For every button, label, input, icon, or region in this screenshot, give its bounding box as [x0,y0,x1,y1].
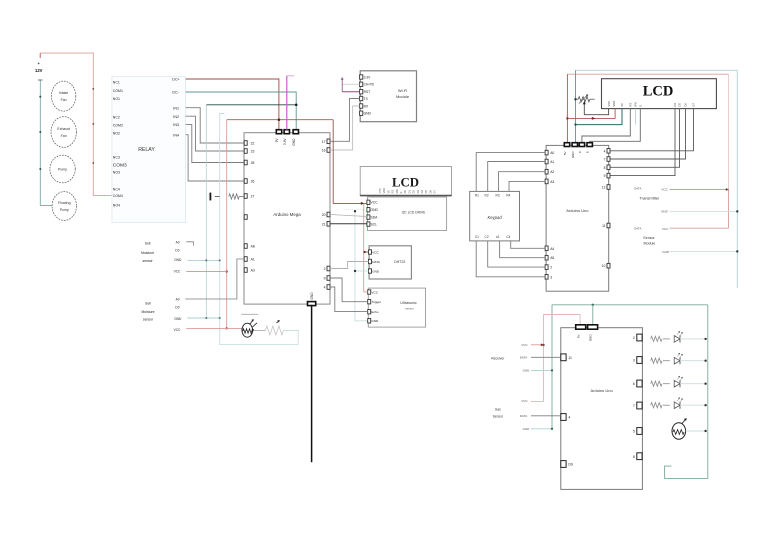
svg-text:D6: D6 [428,190,432,194]
svg-text:NO4: NO4 [113,203,120,207]
wire stub under mega [241,313,258,315]
wire 5V to LCD2 VDD (red) [567,109,615,119]
svg-text:D4: D4 [420,190,424,194]
svg-text:SDA: SDA [371,216,379,220]
Uno2 pin A0 [545,150,548,155]
resistor R2 [651,358,662,363]
wire WiFi TX to Mega 17 [330,99,360,142]
Uno3 pin 5V (top) [576,325,586,329]
svg-text:2: 2 [633,336,635,340]
svg-text:Sensor: Sensor [643,236,655,240]
svg-text:V0: V0 [386,190,390,194]
svg-text:GND: GND [364,112,372,116]
wire DHT GND (teal) [355,270,369,272]
Mega pin GND (bottom) [308,302,316,306]
svg-text:C4: C4 [506,235,510,239]
svg-text:4: 4 [568,416,570,420]
resistor R1 [651,336,662,341]
LCD1 display [360,167,451,196]
svg-text:VCC: VCC [372,250,379,254]
WiFi pin CH-PD [360,82,363,86]
Uno3 pin 3 [637,357,642,364]
svg-text:I2C LCD DRIVE: I2C LCD DRIVE [402,211,426,215]
svg-text:COM2: COM2 [113,123,123,127]
svg-text:NC4: NC4 [113,187,120,191]
wire WiFi RST (dark magenta) [342,91,359,93]
wire receiver GND (teal) [531,369,552,371]
ultrasonic sensor U4 [368,288,425,327]
wire receiver VCC (red) [531,344,544,346]
svg-text:A3: A3 [550,180,554,184]
svg-text:5V: 5V [563,152,567,156]
wire LED D1 to GND rail [680,338,708,340]
sensor probe bar at pin 27 [210,193,212,201]
DHT22 pin GND [369,269,372,273]
svg-text:9: 9 [604,174,606,178]
svg-text:23: 23 [251,150,255,154]
svg-text:5V: 5V [577,335,581,339]
svg-text:RST: RST [364,90,371,94]
Uno2 pin 9 [607,173,610,178]
Uno2 pin A1 [545,159,548,164]
potentiometer RV1 [574,98,576,100]
wire GND to LCD2 V0 (teal) [576,109,623,125]
svg-text:Arduino Uno: Arduino Uno [590,388,613,393]
Mega pin A1 [244,257,247,262]
svg-text:4: 4 [324,286,326,290]
svg-text:20: 20 [322,213,326,217]
Uno2 pin 9 (top) [579,143,584,147]
wire keypad R3 to A2 [499,172,546,192]
svg-text:DATA: DATA [372,260,381,264]
svg-text:D3: D3 [416,190,420,194]
Mega pin GND (top) [293,130,298,134]
svg-text:3: 3 [633,359,635,363]
resistor R3 [651,381,662,386]
svg-text:Soil: Soil [145,242,151,246]
svg-text:GND: GND [310,292,314,300]
Uno2 pin A4 [545,246,548,251]
wire LCD2 D7 to Uno2 pin 4 [610,109,694,151]
svg-text:11: 11 [568,356,572,360]
svg-text:8: 8 [604,166,606,170]
node GND rail Uno3 (green) [552,304,708,306]
Uno3 pin 5 [637,428,642,435]
wire transmitter GND (teal) [670,210,738,212]
Mega pin 16 [327,148,330,153]
wire WiFi RX to Mega 16 [330,106,360,150]
wire IN4 to pin 26 [186,135,245,181]
wire teal rail right vertical [736,70,738,288]
LDR sensor (circle) [242,323,253,337]
svg-text:Trigger: Trigger [371,300,381,304]
svg-text:NO3: NO3 [113,171,120,175]
svg-text:sensor: sensor [405,306,413,310]
wire DC+ to Mega 5V (red) [186,79,279,130]
svg-text:Module: Module [644,241,656,245]
wire LED D3 to GND rail [680,383,708,385]
svg-text:IN3: IN3 [173,123,179,127]
svg-text:11: 11 [602,224,606,228]
svg-text:2: 2 [550,266,552,270]
svg-text:VCC: VCC [371,290,378,294]
svg-text:D7: D7 [692,103,696,107]
svg-text:DATA: DATA [520,414,528,418]
Mega pin 4 [327,285,330,290]
wire IN3 to pin 28 [186,125,245,163]
svg-text:GND: GND [523,427,531,431]
wire receiver DATA to pin 11 [531,356,561,358]
Uno2 pin 8 (top) [587,143,592,147]
svg-text:c3: c3 [496,235,500,239]
Arduino Uno U6 [561,328,643,490]
svg-text:GND: GND [371,319,379,323]
svg-text:CH-PD: CH-PD [364,83,375,87]
svg-text:VCC: VCC [662,227,669,231]
svg-text:GND: GND [174,317,182,321]
Uno2 pin 8 [607,165,610,170]
wire IN2 to pin 23 [186,116,245,151]
wire sensor2 VCC to LDR [186,327,242,329]
svg-text:VCC: VCC [174,270,181,274]
ultrasonic pin Echo [368,310,371,314]
svg-text:5: 5 [633,430,635,434]
svg-text:27: 27 [251,195,255,199]
I2C pin SDA [367,215,370,219]
svg-text:Sensor: Sensor [493,414,504,418]
svg-text:Transmitter: Transmitter [639,196,660,201]
svg-text:VDD: VDD [612,101,616,107]
Uno2 pin 12 [607,185,610,190]
node VCC rail modules (red) [363,203,365,292]
svg-text:17: 17 [322,140,326,144]
wire Mega 3.3V (magenta) [286,76,288,130]
ultrasonic pin Trigger [368,300,371,304]
svg-text:DC-: DC- [172,91,179,95]
svg-text:A0: A0 [550,151,554,155]
Uno2 pin 11 [607,223,610,228]
wire sensor2 A0 to pin A1 [185,259,244,299]
svg-text:GND: GND [661,210,669,214]
wire red rail right vertical [728,74,730,189]
svg-text:21: 21 [322,222,326,226]
Mega pin nc [244,215,247,220]
I2C pin VCC [367,200,370,204]
svg-text:VCC: VCC [521,343,528,347]
LCD2 display [602,79,717,109]
node GND rail modules (teal) [355,211,368,321]
wire gas VCC (pink) [531,401,544,403]
svg-text:D0: D0 [403,190,407,194]
svg-text:Echo: Echo [371,310,378,314]
load M1 Intake Fan [51,81,75,111]
svg-text:sensor: sensor [143,259,154,263]
wire 12V- rail (teal) [38,79,43,81]
svg-text:Receiver: Receiver [491,357,505,361]
Uno2 pin 2 [545,265,548,270]
resistor R4 [651,403,662,408]
svg-text:VDD: VDD [382,188,386,194]
wire motor to GND rail [686,430,708,432]
Uno3 pin 8 [637,453,642,460]
wire LCD2 D4 to Uno2 pin 9 [610,109,675,176]
svg-text:Soil: Soil [145,302,151,306]
wire GND link (dark) [206,104,296,106]
svg-text:4: 4 [604,149,606,153]
wire transmitter VCC (red) [670,189,729,191]
LED D1 [674,336,680,343]
svg-text:E: E [399,191,403,193]
keypad 4x4 [470,191,520,241]
svg-text:NC1: NC1 [113,81,120,85]
LED D4 [674,402,680,409]
svg-text:VCC: VCC [174,328,181,332]
svg-text:IN4: IN4 [173,133,179,137]
svg-text:D0: D0 [175,306,179,310]
Mega pin 9 [327,276,330,281]
svg-text:R2: R2 [485,194,489,198]
svg-text:D4: D4 [673,103,677,107]
wire Mega 2 to DHT DATA [330,262,369,269]
wire GND return stub [220,112,225,114]
wire LDR to resistor [253,330,266,332]
I2C pin SCL [367,222,370,226]
load M2 Exhaust Fan [51,117,76,148]
Arduino Mega U1 [244,133,330,304]
svg-text:DHT22: DHT22 [394,260,405,264]
svg-text:NC2: NC2 [113,116,120,120]
wire LED D4 to GND rail [680,404,708,406]
svg-text:Moisture: Moisture [141,251,154,255]
svg-text:Intake: Intake [59,91,69,95]
node 5V rail right section (red) [567,73,728,75]
svg-text:C2: C2 [485,235,489,239]
ultrasonic pin GND [368,319,371,323]
wire keypad R2 to A1 [488,162,545,192]
wire DHT VCC (red) [364,251,369,253]
svg-text:GND: GND [372,269,380,273]
I2C pin GND [367,208,370,212]
ultrasonic pin VCC [368,290,371,294]
svg-text:D2: D2 [412,190,416,194]
svg-text:D1: D1 [407,190,411,194]
wire 5V to I2C VCC (red) [333,120,367,204]
svg-text:NO2: NO2 [113,131,120,135]
svg-text:Pump: Pump [60,208,69,212]
svg-text:DATA: DATA [634,226,641,230]
svg-text:A0: A0 [176,241,180,245]
svg-text:R3: R3 [496,194,500,198]
svg-text:COM4: COM4 [113,194,123,198]
Uno2 pin A2 [545,169,548,174]
svg-text:D7: D7 [433,190,437,194]
Uno3 pin 7 [637,402,642,409]
svg-text:LCD: LCD [643,84,674,100]
DHT22 sensor U3 [369,246,411,279]
svg-text:DC+: DC+ [172,78,179,82]
Uno2 pin 5V (top) [564,143,569,147]
Uno2 pin GND (top) [572,143,577,147]
power supply 12V [39,53,41,58]
Mega pin 23 [244,149,247,154]
Uno2 pin 7 [607,157,610,162]
svg-text:12: 12 [602,186,606,190]
svg-text:8: 8 [633,455,635,459]
Uno2 pin 3 [545,275,548,280]
Mega pin 21 [327,222,330,227]
WiFi pin 3.3V [360,75,363,79]
relay module K1 [112,77,186,223]
svg-text:2: 2 [324,267,326,271]
wire keypad C2 to pin 2 [488,241,545,267]
wire LCD2 D5 to Uno2 pin 8 [610,109,680,168]
svg-text:A5: A5 [550,256,554,260]
svg-text:Module: Module [396,94,410,99]
svg-text:RS: RS [629,103,633,107]
svg-text:10: 10 [602,264,606,268]
Uno3 pin D6 [561,461,566,468]
svg-text:7: 7 [633,404,635,408]
wire Mega 4 to Echo [330,287,368,312]
svg-text:GND: GND [371,208,379,212]
svg-text:COM3: COM3 [113,163,127,169]
svg-text:GND: GND [571,151,575,159]
Uno3 pin 2 [637,334,642,341]
svg-text:E: E [639,105,643,107]
node GND rail for sensors (teal) [205,105,207,319]
Uno2 pin A5 [545,255,548,260]
svg-text:26: 26 [251,180,255,184]
svg-text:SCL: SCL [371,223,378,227]
svg-text:3.3V: 3.3V [364,75,372,79]
Wi-Fi module U2 [360,71,416,122]
wire Mega 20 to SDA [330,215,367,217]
svg-text:GND: GND [292,138,296,146]
Uno2 pin 4 [607,149,610,154]
svg-text:A0: A0 [176,298,180,302]
DHT22 pin DATA [369,259,372,263]
wire 12V+ to relay COM4 (red) [40,53,112,195]
wire keypad R1 to A0 [476,153,545,192]
wire I2C GND (faint) [344,209,367,211]
svg-text:28: 28 [251,161,255,165]
svg-text:7: 7 [604,158,606,162]
DHT22 pin VCC [369,250,372,254]
node 5V feed Uno3 (pink) [544,315,581,402]
svg-text:GND: GND [589,334,593,342]
wire LCD2 D6 to Uno2 pin 7 [610,109,686,159]
Mega pin 5V (top) [276,130,281,134]
svg-text:DATA: DATA [520,356,528,360]
Mega pin 28 [244,160,247,165]
load M4 Floating Pump [52,192,76,221]
wire Mega 9 to Trigger [330,278,368,302]
wire gas DATA to pin 4 [531,415,561,417]
wire LCD2 E to Uno2 pin [590,109,641,143]
LED D2 [674,357,680,364]
svg-text:Floating: Floating [58,201,71,205]
svg-text:12V: 12V [35,68,43,73]
Mega pin 27 [244,194,247,199]
Mega pin A8 [244,244,247,249]
svg-text:Wi-Fi: Wi-Fi [398,88,407,93]
svg-text:D6: D6 [568,463,572,467]
wire GND probe (black) [311,305,313,463]
Mega pin 26 [244,179,247,184]
svg-text:A4: A4 [550,247,554,251]
svg-text:VSS: VSS [607,101,611,107]
svg-text:A2: A2 [550,170,554,174]
svg-text:Arduino Uno: Arduino Uno [566,208,589,213]
svg-text:R1: R1 [475,194,479,198]
svg-text:RW: RW [395,189,399,194]
Uno2 pin A3 [545,179,548,184]
svg-text:Exhaust: Exhaust [57,127,70,131]
svg-text:LCD: LCD [392,176,419,190]
I2C LCD driver module [368,197,447,231]
svg-text:A3: A3 [251,269,255,273]
svg-text:D6: D6 [684,103,688,107]
wire sensor1 VCC [186,271,226,273]
svg-text:RELAY: RELAY [138,147,155,153]
wire gas GND (teal) [531,428,552,430]
Mega pin 2 [327,266,330,271]
node 5V distribution (red rail) [227,119,334,121]
svg-text:RW: RW [634,102,638,107]
svg-text:VCC: VCC [521,399,528,403]
svg-text:sensor: sensor [143,318,154,322]
Uno3 pin 4 [561,414,566,421]
Uno3 pin 6 [637,380,642,387]
svg-text:9: 9 [324,277,326,281]
wire WiFi CH-PD (faint) [342,83,359,85]
wire ultrasonic VCC (red) [364,291,368,293]
svg-text:3.3V: 3.3V [283,138,287,145]
svg-text:C1: C1 [475,235,479,239]
Mega pin 22 [244,141,247,146]
wire Uno3 GND pin to rail [592,305,594,327]
WiFi pin RX [360,104,363,108]
svg-text:RX: RX [364,104,369,108]
svg-text:VCC: VCC [662,188,669,192]
Uno3 pin GND (top) [588,325,598,329]
svg-text:A1: A1 [550,160,554,164]
svg-text:R4: R4 [506,194,510,198]
svg-text:RS: RS [391,190,395,194]
wire keypad C4 to A4 [511,241,545,248]
svg-text:Pump: Pump [58,168,67,172]
wire keypad C3 to A5 [500,241,545,258]
Mega pin 3.3V (top) [284,130,289,134]
svg-text:Gas: Gas [495,408,501,412]
resistor R_27 [229,194,239,199]
wire sensor module VCC (red) [670,227,729,229]
svg-text:GND: GND [662,250,670,254]
wire IN1 to pin 22 [186,108,245,143]
svg-text:3: 3 [550,275,552,279]
WiFi pin TX [360,96,363,100]
LED D3 [674,380,680,387]
svg-text:D5: D5 [424,190,428,194]
resistor R_light (faint) [265,326,283,335]
wire sensor1 GND [187,259,219,261]
wire pot wiper to LCD2 VSS [584,104,608,115]
Mega pin 20 [327,212,330,217]
svg-text:GND: GND [523,369,531,373]
WiFi pin RST [360,90,363,94]
wire keypad C1 to pin 3 [476,241,545,277]
motor / sensor M5 (circle) [672,423,686,440]
